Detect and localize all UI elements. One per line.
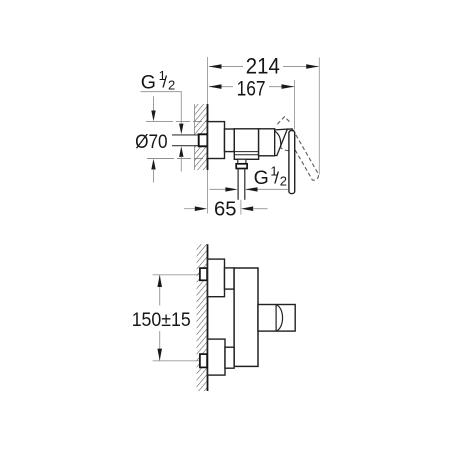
supply pipe bold section in wall <box>199 134 208 146</box>
dimension 150 line <box>159 275 161 306</box>
dimension 167 right arrow <box>282 84 295 89</box>
dimension diam70 lower arrow <box>151 159 155 170</box>
upper supply stub <box>200 268 207 280</box>
svg-text:/: / <box>162 73 167 92</box>
supply pipe outline <box>172 134 207 136</box>
mixer body (side) <box>234 129 258 160</box>
handle cap inner curve <box>275 131 281 147</box>
diam70 extension line top <box>146 121 207 123</box>
handle cap (solid) <box>275 129 288 155</box>
lever dashed cap outline (raised position) <box>277 117 290 125</box>
lower union block <box>208 339 225 375</box>
upper union block <box>208 259 225 297</box>
knob bulge arc <box>276 305 282 331</box>
label G 1/2 upper arrow <box>179 124 183 135</box>
escutcheon <box>208 122 225 159</box>
mixer body (front) <box>234 268 258 366</box>
dimension 167 line <box>209 86 233 88</box>
wall hatch (top view) <box>195 104 207 170</box>
lower supply stub <box>200 354 207 367</box>
svg-text:65: 65 <box>214 198 237 220</box>
supply pipe white cut <box>171 136 207 146</box>
wall surface line (bottom view) <box>207 244 209 391</box>
dimension 150 up arrow <box>157 275 162 287</box>
outlet step 2 (hose nut) <box>236 164 247 169</box>
svg-text:G: G <box>141 72 156 94</box>
outlet step 1 <box>238 159 246 164</box>
svg-text:214: 214 <box>246 54 280 79</box>
body groove lines <box>234 151 258 153</box>
dimension 150 extension bottom <box>153 360 214 362</box>
label G 1/2 leader underline <box>141 92 182 124</box>
outlet pipe center extension <box>240 200 242 215</box>
dimension diam70 upper arrow <box>153 96 155 111</box>
label G 1/2 outlet left-pointing arrow <box>245 187 257 191</box>
lower nut <box>225 347 234 368</box>
wall surface line (top view) <box>207 104 209 170</box>
wall hatch left boundary <box>193 104 195 170</box>
label G 1/2 lower arrow <box>179 146 183 157</box>
upper nut <box>225 268 235 289</box>
lever dashed upper edge (raised position) <box>293 129 319 180</box>
outlet counter arrow (points right at pipe) <box>210 188 234 190</box>
dimension 65 left-pointing arrow <box>241 206 253 211</box>
label G 1/2 outlet leader line <box>246 188 288 190</box>
svg-text:G: G <box>254 167 269 189</box>
diam70 extension line bottom <box>147 158 207 160</box>
svg-text:150±15: 150±15 <box>132 309 191 331</box>
svg-text:2: 2 <box>280 173 287 188</box>
dimension 167 left arrow <box>209 84 222 89</box>
svg-text:2: 2 <box>168 77 175 92</box>
outlet pipe <box>237 169 239 200</box>
lever knob (front) <box>258 305 295 332</box>
cap top edge to lever <box>287 128 293 130</box>
svg-text:Ø70: Ø70 <box>135 131 168 153</box>
union nut <box>225 129 235 152</box>
extension line right of 214 <box>318 58 320 175</box>
dimension 214 line <box>209 66 243 68</box>
lever dashed cap bottom sweep <box>279 147 294 151</box>
knob chord line <box>275 305 277 332</box>
svg-text:/: / <box>274 168 279 187</box>
dimension 65 line left <box>184 208 201 210</box>
dimension 150 extension top <box>153 274 207 276</box>
cartridge housing <box>259 129 275 156</box>
svg-text:167: 167 <box>237 77 266 100</box>
dimension 65 right-pointing arrow <box>195 206 207 211</box>
wall hatch (bottom view) <box>197 244 207 391</box>
dimension 214 right arrow <box>306 64 319 69</box>
lever (solid, down position) <box>289 131 295 194</box>
dimension 214 left arrow <box>209 64 222 69</box>
dimension 150 down arrow <box>157 349 162 361</box>
extension line wall (left, for 214/167/65 dims) <box>207 57 209 214</box>
extension line right of 167 <box>294 80 296 130</box>
